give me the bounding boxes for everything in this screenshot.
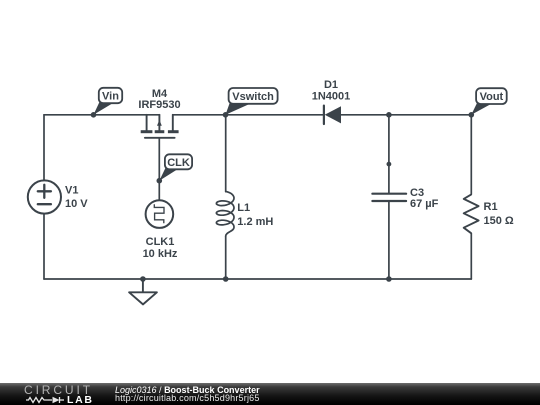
wire top-middle Vswitch segment: [173, 114, 324, 116]
svg-text:L1: L1: [237, 202, 250, 214]
flag Vswitch: [226, 103, 251, 115]
M4 channel bar left: [141, 130, 153, 133]
svg-text:1N4001: 1N4001: [312, 91, 351, 103]
M4 channel bar right: [168, 130, 179, 133]
junction node Vswitch (top wire / L1 branch): [223, 112, 229, 118]
junction node on C3 wire: [387, 162, 392, 167]
junction node top of C3 branch: [386, 112, 392, 118]
svg-text:C3: C3: [410, 187, 424, 199]
svg-text:10 kHz: 10 kHz: [143, 248, 178, 260]
M4 body arrow: [157, 120, 162, 126]
wire gate to CLK1: [158, 138, 160, 201]
M4 drain lead: [146, 115, 148, 130]
footer bar: [0, 383, 540, 405]
svg-text:Vswitch: Vswitch: [232, 91, 274, 103]
svg-text:CLK1: CLK1: [146, 236, 175, 248]
svg-text:V1: V1: [65, 185, 78, 197]
junction node ground on bottom wire: [140, 276, 146, 282]
wire below R1: [470, 233, 472, 279]
wire top-right Vout segment: [341, 114, 471, 116]
wire top-left Vin segment: [44, 114, 159, 116]
wire above L1: [225, 115, 227, 192]
wire left vertical below V1: [43, 214, 45, 279]
junction node Vout (top wire / R1 branch): [469, 112, 475, 118]
M4 source lead: [172, 115, 174, 130]
svg-text:IRF9530: IRF9530: [138, 99, 180, 111]
svg-text:150 Ω: 150 Ω: [484, 215, 514, 227]
flag Vin: [94, 101, 114, 115]
voltage source V1: [28, 180, 61, 213]
diode D1: [323, 106, 325, 124]
ground: [142, 279, 144, 292]
svg-text:R1: R1: [484, 201, 498, 213]
svg-text:Vout: Vout: [480, 91, 504, 103]
junction node C3 bottom on bottom wire: [386, 276, 392, 282]
svg-text:M4: M4: [152, 88, 168, 100]
wire left vertical above V1: [43, 115, 45, 181]
clock source CLK1: [146, 200, 174, 228]
flag Vout: [471, 103, 490, 115]
svg-text:1.2 mH: 1.2 mH: [237, 216, 273, 228]
svg-text:67 µF: 67 µF: [410, 198, 439, 210]
svg-text:CLK: CLK: [167, 157, 190, 169]
M4 channel bar middle: [155, 130, 165, 133]
svg-text:LAB: LAB: [67, 394, 94, 404]
junction node L1 bottom on bottom wire: [223, 276, 229, 282]
inductor L1: [216, 192, 234, 237]
M4 body/source lead: [158, 115, 160, 130]
wire below C3: [388, 201, 390, 279]
junction node CLK on gate wire: [157, 178, 163, 184]
wire below L1: [225, 236, 227, 279]
flag CLK: [159, 167, 178, 180]
capacitor C3: [372, 193, 406, 195]
junction node Vin on top wire: [91, 112, 97, 118]
M4 gate bar: [145, 137, 175, 139]
wire bottom: [44, 278, 471, 280]
wire above R1: [470, 115, 472, 195]
circuitlab logo: [24, 384, 94, 404]
resistor R1: [464, 194, 479, 233]
transistor M4 (PMOS IRF9530): [141, 115, 179, 138]
svg-text:D1: D1: [324, 79, 338, 91]
svg-text:Vin: Vin: [102, 91, 119, 103]
wire above C3: [388, 115, 390, 194]
svg-text:10 V: 10 V: [65, 198, 88, 210]
